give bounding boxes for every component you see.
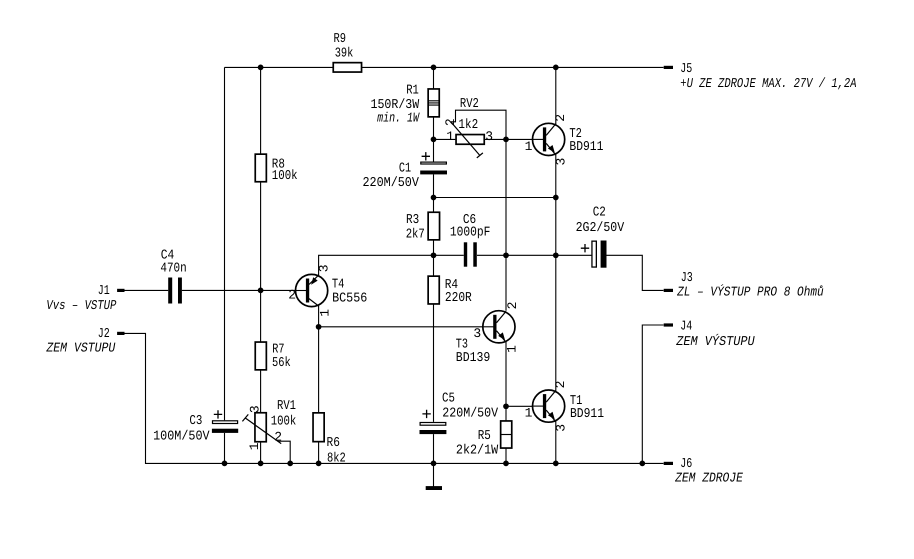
svg-text:3: 3 — [248, 405, 263, 413]
svg-text:1: 1 — [525, 139, 533, 154]
capacitor C1 — [421, 162, 447, 164]
terminal J6 — [664, 462, 673, 465]
svg-text:J3: J3 — [681, 271, 693, 286]
junction node 20 (555.8,463.4) — [553, 461, 559, 467]
svg-text:3: 3 — [553, 158, 568, 166]
junction node 17 (318.6,463.4) — [316, 461, 322, 467]
junction node 15 (260.6,463.4) — [258, 461, 264, 467]
wire left drop to C3 — [224, 67, 226, 420]
svg-text:RV1: RV1 — [277, 399, 296, 414]
svg-text:+U ZE ZDROJE MAX. 27V / 1,2A: +U ZE ZDROJE MAX. 27V / 1,2A — [680, 77, 856, 92]
wire J4 branch — [642, 325, 663, 463]
junction node 19 (506.0,463.4) — [503, 461, 509, 467]
trimmer RV1 — [255, 413, 266, 442]
capacitor C2 — [592, 241, 596, 267]
svg-text:C5: C5 — [442, 392, 455, 407]
svg-text:ZEM VSTUPU: ZEM VSTUPU — [46, 341, 117, 356]
resistor R5 — [501, 421, 512, 448]
wire C4 to T4 base — [182, 289, 296, 291]
svg-text:C2: C2 — [593, 206, 606, 221]
wire C6 to C2 — [477, 254, 592, 256]
wire T3 emitter to R5 and T1 base — [505, 341, 507, 463]
wire C1 to R3-R4-C5 chain — [433, 174, 435, 422]
svg-text:BC556: BC556 — [332, 291, 367, 306]
svg-text:2k7: 2k7 — [406, 228, 425, 243]
resistor R3 — [428, 212, 439, 240]
svg-text:1: 1 — [317, 309, 332, 317]
svg-text:100k: 100k — [272, 169, 298, 184]
svg-text:39k: 39k — [335, 46, 354, 61]
junction node 16 (290.2,463.4) — [287, 461, 293, 467]
resistor R7 — [255, 342, 266, 370]
wire RV2 wiper route down to T3 collector — [451, 110, 506, 311]
wire J2 down to ground rail — [125, 333, 664, 463]
svg-text:2: 2 — [443, 118, 458, 126]
junction node 18 (433.5,463.4) — [431, 461, 437, 467]
svg-text:min. 1W: min. 1W — [377, 111, 420, 126]
svg-text:2: 2 — [553, 114, 568, 122]
wire mid rail T2 collector — [555, 67, 557, 125]
junction node 7 (555.8,197.5) — [553, 195, 559, 201]
svg-text:470n: 470n — [160, 261, 186, 276]
svg-text:1: 1 — [505, 345, 520, 353]
junction node 12 (318.6,326.8) — [316, 324, 322, 330]
wire C3 bottom stub — [224, 433, 226, 464]
wire R8-R7-RV1 vertical — [260, 67, 262, 463]
svg-text:100k: 100k — [271, 414, 297, 429]
junction node 6 (433.5,197.5) — [431, 195, 437, 201]
transistor T4 — [296, 274, 328, 306]
svg-text:1k2: 1k2 — [458, 118, 478, 133]
svg-text:220M/50V: 220M/50V — [363, 176, 419, 191]
terminal J5 — [664, 66, 673, 69]
svg-text:220M/50V: 220M/50V — [442, 406, 498, 421]
wire ground stub — [433, 463, 435, 486]
svg-text:3: 3 — [317, 264, 332, 272]
svg-text:3: 3 — [485, 129, 493, 144]
wire T2 emitter down to T1 collector — [555, 154, 557, 392]
svg-text:2: 2 — [553, 381, 568, 389]
svg-text:2: 2 — [505, 302, 520, 310]
resistor R9 — [333, 63, 361, 72]
junction node 9 (506.0,255.3) — [503, 252, 509, 258]
svg-text:J1: J1 — [98, 284, 110, 299]
svg-text:R9: R9 — [334, 32, 347, 47]
junction node 2 (433.5,67.4) — [431, 65, 437, 71]
junction node 3 (555.8,67.4) — [553, 65, 559, 71]
svg-text:3: 3 — [473, 326, 481, 341]
resistor R1 — [428, 89, 439, 117]
wire RV2 pin3 to T2 base — [485, 138, 533, 140]
svg-text:1: 1 — [446, 129, 454, 144]
terminal J2 — [117, 332, 124, 335]
svg-text:C3: C3 — [189, 414, 202, 429]
svg-text:R1: R1 — [406, 83, 419, 98]
wire T4 collector to R6 — [318, 305, 320, 464]
capacitor C3 — [213, 421, 238, 424]
svg-text:ZEM ZDROJE: ZEM ZDROJE — [674, 471, 743, 486]
junction node 14 (224.5,463.4) — [222, 461, 228, 467]
resistor R6 — [313, 413, 324, 442]
svg-text:ZEM VÝSTUPU: ZEM VÝSTUPU — [675, 333, 755, 350]
svg-text:2G2/50V: 2G2/50V — [576, 221, 625, 236]
svg-text:220R: 220R — [445, 291, 472, 306]
svg-text:2: 2 — [274, 430, 282, 445]
svg-text:3: 3 — [554, 424, 569, 432]
wire node to RV2 pin1 — [434, 138, 456, 140]
wire T1 emitter to rail — [555, 421, 557, 464]
wire R1-C1-R3 chain vertical — [433, 67, 435, 161]
svg-text:RV2: RV2 — [460, 97, 479, 112]
svg-text:100M/50V: 100M/50V — [153, 429, 210, 444]
wire T1 base — [506, 405, 533, 407]
svg-text:1000pF: 1000pF — [450, 226, 491, 241]
svg-text:J5: J5 — [680, 62, 692, 77]
svg-text:J2: J2 — [98, 327, 110, 342]
svg-text:56k: 56k — [272, 356, 291, 371]
transistor T2 — [533, 123, 565, 155]
junction node 21 (642.3,463.4) — [639, 461, 645, 467]
svg-text:2: 2 — [288, 288, 296, 303]
wire J1 to C4 — [125, 289, 169, 291]
wire RV1 wiper to rail — [278, 441, 291, 463]
svg-text:C1: C1 — [399, 162, 411, 177]
svg-text:J4: J4 — [680, 320, 692, 335]
junction node 4 (433.5,139.4) — [431, 137, 437, 143]
terminal J3 — [664, 289, 673, 292]
svg-text:R6: R6 — [327, 436, 340, 451]
terminal J1 — [117, 289, 124, 292]
capacitor C5 — [420, 423, 446, 426]
wire T4 emitter to C6 — [319, 255, 464, 276]
transistor T1 — [533, 390, 565, 422]
svg-text:1: 1 — [247, 442, 262, 450]
wire top +U rail — [225, 66, 664, 68]
capacitor C4 — [168, 278, 172, 304]
wire T3 base — [319, 326, 483, 328]
wire C5 bottom to rail — [433, 434, 435, 463]
junction node 13 (506.0,406.3) — [503, 403, 509, 409]
junction node 11 (260.6,290.4) — [258, 288, 264, 294]
svg-text:BD139: BD139 — [456, 351, 491, 366]
trimmer RV2 — [456, 135, 484, 145]
svg-text:Vvs – VSTUP: Vvs – VSTUP — [46, 299, 116, 314]
resistor R4 — [428, 276, 439, 304]
svg-text:ZL – VÝSTUP PRO 8 Ohmů: ZL – VÝSTUP PRO 8 Ohmů — [676, 284, 823, 301]
junction node 8 (433.5,255.3) — [431, 252, 437, 258]
transistor T3 — [483, 311, 515, 343]
wire node y197 — [434, 197, 556, 199]
junction node 10 (555.8,255.3) — [553, 252, 559, 258]
capacitor C6 — [464, 242, 467, 266]
junction node 5 (506.0,139.4) — [503, 137, 509, 143]
svg-text:BD911: BD911 — [569, 140, 603, 155]
ground — [426, 486, 442, 490]
svg-text:8k2: 8k2 — [327, 451, 346, 466]
svg-text:R5: R5 — [478, 429, 491, 444]
svg-text:BD911: BD911 — [570, 407, 604, 422]
svg-text:1: 1 — [525, 406, 533, 421]
svg-text:J6: J6 — [680, 457, 692, 472]
wire C2 to J3 — [606, 255, 664, 290]
svg-text:R3: R3 — [406, 213, 419, 228]
svg-text:2k2/1W: 2k2/1W — [456, 444, 499, 459]
terminal J4 — [664, 323, 673, 326]
resistor R8 — [255, 154, 266, 182]
junction node 1 (260.6,67.4) — [258, 65, 264, 71]
